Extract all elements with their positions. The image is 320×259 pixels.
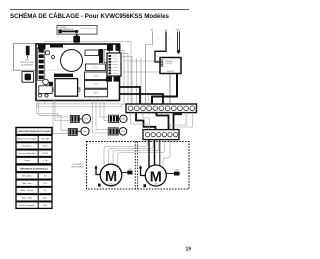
table header 2: [16, 165, 52, 172]
wire PCB thick A: [119, 87, 140, 104]
svg-text:Blanc - Bleu: Blanc - Bleu: [22, 198, 32, 200]
motor M2 rotation arrow: [139, 165, 146, 175]
interconnect wire W4 grey: [170, 113, 186, 130]
svg-text:645 W: 645 W: [42, 153, 48, 155]
interconnect wire W2: [157, 113, 169, 130]
relay K2: [85, 72, 108, 80]
svg-text:SCHÉMA DE CÂBLAGE - Pour KVWC9: SCHÉMA DE CÂBLAGE - Pour KVWC956KSS Modè…: [10, 12, 170, 20]
relay box RB1: [160, 58, 181, 74]
svg-text:43 Ω: 43 Ω: [43, 198, 48, 200]
fuse F1: [26, 46, 30, 58]
interconnect wire W3: [174, 113, 182, 130]
power cord label box: [57, 26, 97, 35]
terminal strip TB1: [126, 104, 197, 113]
svg-text:Alimentation électrique: Alimentation électrique: [17, 137, 36, 140]
interconnect wire W5 grey: [178, 113, 193, 130]
svg-text:60 Hz: 60 Hz: [43, 146, 48, 148]
lamp wires row1 left: [37, 100, 71, 121]
svg-text:VENTILATEUR: VENTILATEUR: [71, 166, 85, 169]
connector CN1 below instruction box: [22, 72, 34, 83]
pcb traces: [46, 46, 112, 99]
svg-text:74 Ω: 74 Ω: [43, 205, 48, 207]
terminal pin stubs TB1: [131, 113, 193, 115]
wire PCB to relay box 2: [120, 71, 161, 73]
svg-text:56: 56: [44, 190, 46, 192]
svg-text:Noir - Blanc: Noir - Blanc: [22, 175, 32, 178]
connector J2 top pins: [107, 45, 121, 51]
motor enclosure dashed box: [87, 142, 190, 190]
lamp wires row2 right: [93, 100, 109, 133]
svg-text:Fréquence: Fréquence: [22, 145, 31, 148]
relay K1: [86, 64, 106, 71]
mounting rail below PCB: [37, 104, 122, 107]
svg-text:Blanc - Orange: Blanc - Orange: [21, 189, 34, 192]
svg-text:RLY3: RLY3: [94, 84, 98, 86]
svg-text:RÉSISTANCE DU MOTEUR (Ω): RÉSISTANCE DU MOTEUR (Ω): [20, 167, 48, 170]
relay K3: [85, 81, 108, 89]
supply wire WH: [155, 30, 171, 62]
relay K5: [55, 79, 78, 97]
table row 4: [16, 157, 52, 164]
varistor RV1: [43, 79, 49, 85]
wire grey betw strips A: [143, 113, 150, 130]
lamp L3: [81, 127, 89, 135]
connector J2 right header: [107, 53, 121, 76]
spec table: [16, 128, 52, 135]
title rule: [10, 9, 189, 11]
svg-text:K5K: K5K: [77, 87, 81, 92]
table row 6: [16, 180, 52, 187]
svg-text:Bk-120A: Bk-120A: [41, 137, 49, 140]
svg-text:LINE IN: LINE IN: [167, 71, 174, 73]
svg-text:RELAIS: RELAIS: [166, 62, 173, 65]
svg-text:DE MONTAGE: DE MONTAGE: [21, 64, 34, 67]
svg-text:70.1: 70.1: [43, 183, 47, 185]
connector J3 bottom: [106, 77, 120, 82]
lamp wires row1 right: [100, 100, 109, 121]
svg-text:CARACTÉRISTIQUES ÉLECTRIQUES: CARACTÉRISTIQUES ÉLECTRIQUES: [17, 130, 51, 133]
table row 5: [16, 173, 52, 180]
motor label: [71, 164, 85, 169]
wire PCB thick B: [119, 94, 163, 104]
svg-text:Puissance Absorbée: Puissance Absorbée: [18, 152, 35, 155]
lamp L1: [82, 115, 91, 124]
motor M1 terminal pin: [98, 184, 101, 187]
svg-text:Noir - Gris: Noir - Gris: [23, 182, 32, 185]
component U3: [45, 51, 49, 55]
bar component: [54, 74, 73, 77]
buzzer BZ1: [61, 50, 83, 72]
lamp wires row2 left: [39, 100, 69, 134]
top connector bar B: [50, 44, 63, 47]
mounting hole H1: [38, 94, 41, 97]
mounting hole H2: [45, 94, 48, 97]
component D1: [49, 82, 53, 86]
terminal pin stubs TB2: [148, 140, 176, 142]
motor M2 terminal pin: [144, 184, 147, 187]
table row 9: [16, 202, 52, 209]
connector P1 left pin header: [38, 48, 45, 81]
capacitor C1: [99, 49, 103, 63]
svg-text:voir Remarque Bas: voir Remarque Bas: [80, 28, 95, 30]
grey wires right of PCB: [120, 51, 149, 105]
enclosure outline: [45, 42, 131, 105]
wire relay box pin thin: [169, 74, 171, 105]
interconnect wire W1: [136, 113, 156, 130]
relay K4: [85, 89, 108, 97]
transformer T1: [85, 50, 99, 56]
lamp plug P4: [68, 128, 81, 135]
svg-text:Courant: Courant: [24, 159, 31, 162]
control board PCB: [36, 44, 120, 101]
table row 2: [16, 143, 52, 150]
top connector bar A: [38, 44, 46, 49]
table row 7: [16, 187, 52, 194]
strain relief connector: [73, 34, 80, 44]
motor M1: [100, 164, 122, 186]
terminal strip TB2: [143, 130, 179, 140]
svg-text:RLY2: RLY2: [94, 76, 98, 78]
box U2: [104, 50, 110, 63]
supply wire BK: [146, 30, 161, 104]
motor M2 wires: [149, 140, 170, 168]
table row 1: [16, 135, 52, 142]
lamp plug P3: [109, 115, 120, 122]
supply wire GND: [176, 30, 181, 55]
label K5 vertical: [51, 87, 55, 92]
motor M2 capacitor: [166, 169, 179, 176]
interconnect wire W6 grey: [131, 113, 148, 130]
svg-text:RLY4: RLY4: [94, 93, 98, 95]
wire relay box pin thick: [152, 74, 177, 105]
table row 8: [16, 195, 52, 202]
wire grey betw strips B: [167, 113, 169, 114]
svg-text:RLY1: RLY1: [93, 67, 97, 69]
svg-text:< 5 A: < 5 A: [43, 159, 48, 162]
motor M1 capacitor: [121, 168, 132, 175]
motor M1 wires: [104, 140, 164, 166]
lamp plug P5: [108, 128, 119, 135]
motor M1 rotation arrow: [94, 165, 100, 174]
wire PCB to relay box 1: [120, 60, 161, 62]
motor M2: [145, 165, 166, 186]
lamp L4: [119, 128, 127, 136]
label right vertical: [77, 87, 81, 92]
svg-text:GND: GND: [176, 30, 181, 32]
lamp L2: [120, 115, 127, 122]
motor enclosure divider: [135, 142, 137, 190]
svg-text:118: 118: [43, 176, 46, 178]
table row 3: [16, 150, 52, 157]
indicator circle: [52, 56, 55, 59]
svg-text:Bu-Fq. Pendulaire: Bu-Fq. Pendulaire: [19, 204, 34, 207]
safety instruction box: [14, 44, 41, 71]
page number: [186, 247, 192, 253]
svg-text:19: 19: [186, 247, 192, 253]
varistor RV2: [39, 86, 52, 94]
power cord plug: [58, 30, 78, 34]
lamp plug P2: [70, 115, 82, 122]
